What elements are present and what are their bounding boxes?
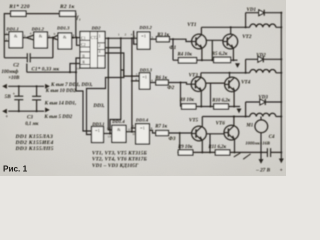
svg-text:0,1 мк: 0,1 мк [25,122,39,127]
svg-text:R2 1к: R2 1к [59,4,75,10]
svg-text:К выв 14 DD1,: К выв 14 DD1, [44,100,77,106]
svg-text:К выв 5 DD2: К выв 5 DD2 [43,114,72,120]
svg-text:11: 11 [128,128,132,132]
svg-text:Ф3: Ф3 [169,136,176,142]
svg-text:DD3.1: DD3.1 [91,122,104,127]
svg-text:+: + [280,169,283,174]
svg-text:DD1.3: DD1.3 [56,26,70,31]
svg-text:100мкф: 100мкф [1,70,18,75]
svg-text:VD2: VD2 [256,54,266,59]
svg-text:&: & [63,35,67,40]
svg-text:10: 10 [53,37,57,41]
svg-text:– 27 В: – 27 В [255,167,270,173]
svg-text:4: 4 [99,50,101,54]
svg-text:Рис. 1: Рис. 1 [3,165,28,174]
svg-text:Ф2: Ф2 [167,85,174,91]
svg-text:+: + [5,115,8,120]
svg-text:R11 6,2к: R11 6,2к [208,145,226,150]
svg-text:DD2: DD2 [91,26,102,31]
svg-text:DD3.2: DD3.2 [138,25,152,30]
svg-text:VT5: VT5 [189,117,199,123]
svg-text:R4 10к: R4 10к [178,52,193,57]
svg-text:CT2: CT2 [91,35,98,40]
svg-text:&: & [117,127,121,132]
svg-text:×10В: ×10В [8,76,20,81]
svg-text:DD3 К155ЛП5: DD3 К155ЛП5 [15,146,54,152]
svg-text:=1: =1 [141,34,147,39]
svg-text:VT1: VT1 [187,22,197,28]
svg-text:C2: C2 [81,43,86,47]
svg-text:R9 10к: R9 10к [178,145,193,150]
svg-text:R5 6,2к: R5 6,2к [212,52,228,57]
svg-text:VT3: VT3 [189,73,199,79]
svg-text:DD1.2: DD1.2 [31,26,45,31]
svg-text:R: R [82,61,85,65]
svg-text:DD2 К155ИЕ4: DD2 К155ИЕ4 [15,140,54,146]
svg-text:DD3,: DD3, [92,103,104,109]
svg-text:Ф1: Ф1 [169,45,176,51]
svg-text:R3 1к: R3 1к [157,33,169,38]
svg-text:M1: M1 [245,123,253,128]
svg-text:VD3: VD3 [258,96,268,101]
svg-text:VT2: VT2 [242,34,252,40]
svg-text:R6 1к: R6 1к [155,76,167,81]
svg-text:VD1: VD1 [247,8,256,13]
svg-text:DD3.4: DD3.4 [135,118,149,123]
svg-text:DD3.3: DD3.3 [139,67,153,72]
svg-text:=1: =1 [95,128,101,133]
svg-text:1000мк×16В: 1000мк×16В [245,140,269,145]
svg-text:DD1.1: DD1.1 [5,26,18,31]
svg-text:1: 1 [79,18,81,22]
svg-text:5В: 5В [5,94,12,100]
svg-text:13: 13 [108,134,112,138]
svg-text:C1: C1 [81,36,86,40]
svg-text:=1: =1 [140,125,146,130]
svg-text:VT6: VT6 [216,120,226,126]
svg-text:2: 2 [99,44,101,48]
svg-text:10: 10 [132,132,136,136]
svg-text:1: 1 [99,35,101,39]
svg-text:R1* 220: R1* 220 [8,3,30,10]
svg-text:R7 1к: R7 1к [155,124,167,129]
svg-text:R8 10к: R8 10к [180,98,195,103]
svg-text:C1* 0,33 мк: C1* 0,33 мк [32,68,60,73]
svg-text:C2: C2 [13,64,19,69]
svg-text:DD1.4: DD1.4 [111,119,125,124]
svg-text:12: 12 [107,126,111,130]
svg-text:14: 14 [76,67,80,71]
svg-text:&: & [14,33,18,38]
svg-text:&: & [39,34,43,39]
svg-text:В: В [82,54,85,58]
svg-text:VT4: VT4 [241,79,251,85]
svg-text:VT2, VT4, VT6 КТ817Б: VT2, VT4, VT6 КТ817Б [92,157,147,163]
svg-text:К выв 10 DD2: К выв 10 DD2 [45,88,77,94]
svg-text:=1: =1 [142,74,148,79]
svg-text:VD1 – VD3 КД105Г: VD1 – VD3 КД105Г [92,163,139,169]
svg-text:C3: C3 [27,115,33,120]
svg-text:R10 6,2к: R10 6,2к [212,98,230,103]
